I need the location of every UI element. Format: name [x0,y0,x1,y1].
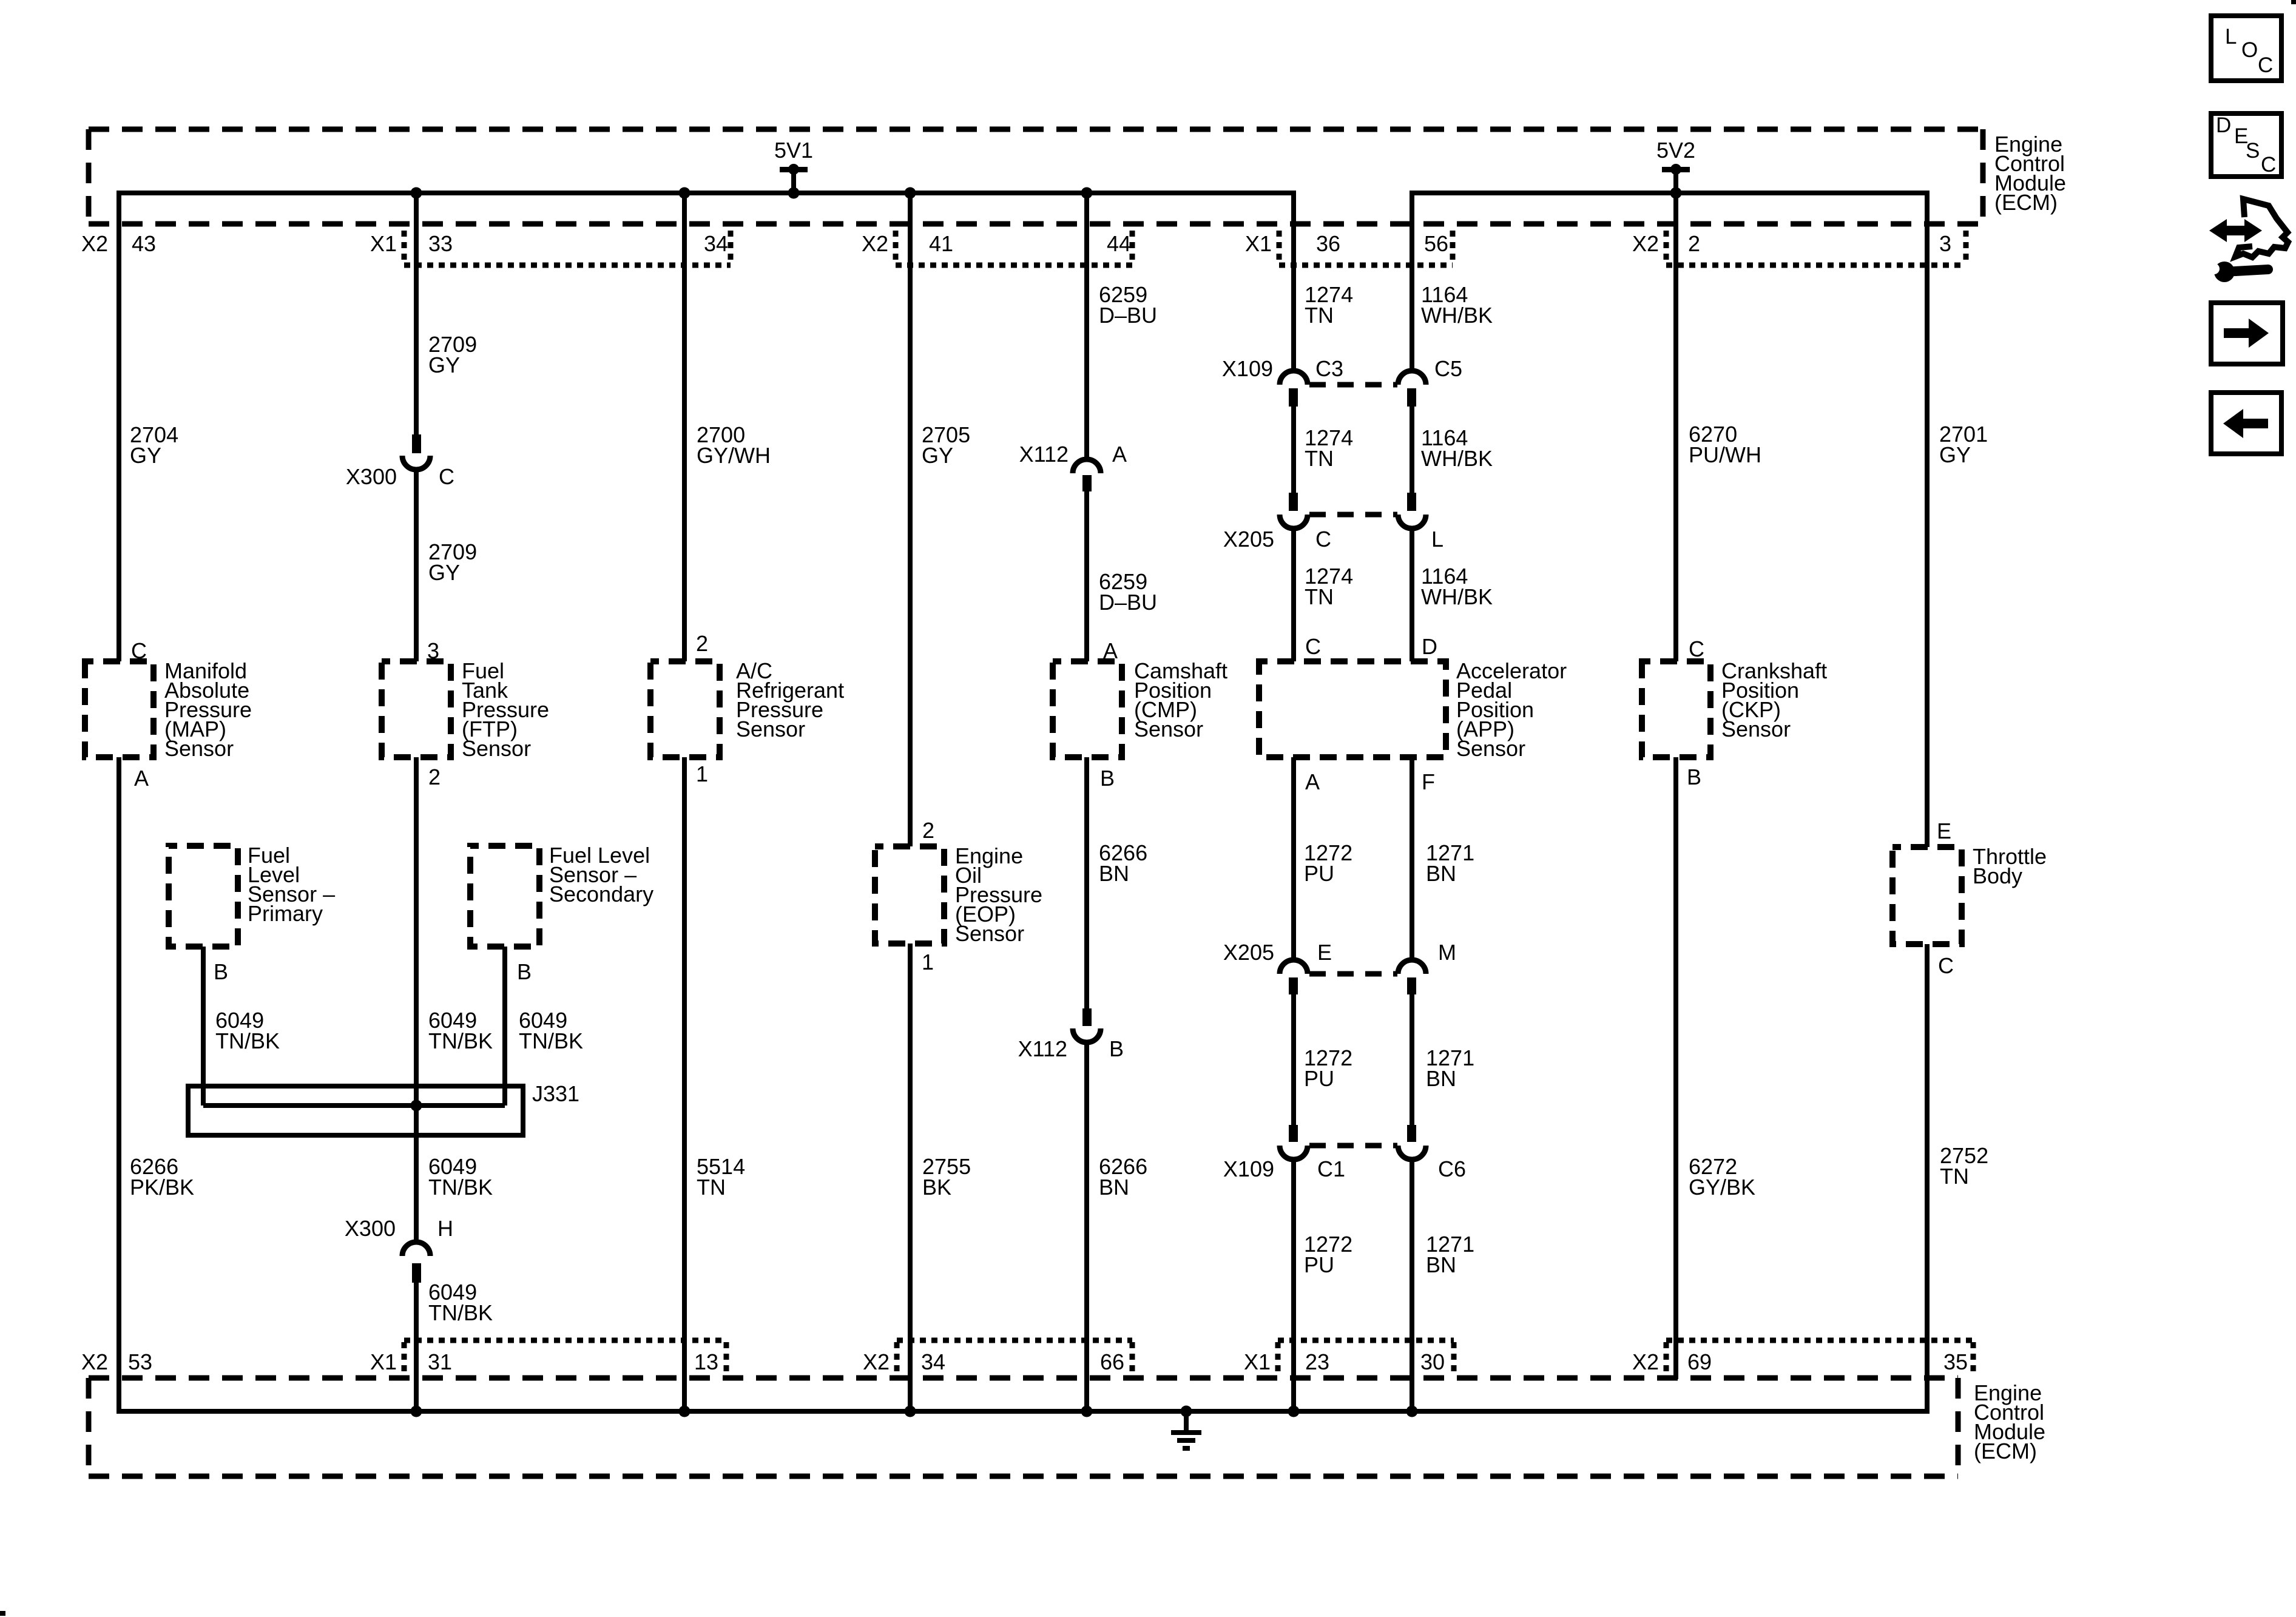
svg-text:30: 30 [1420,1349,1445,1374]
junction node pin 23 wire / ground bus [1288,1406,1300,1417]
svg-text:C3: C3 [1315,356,1343,381]
svg-text:43: 43 [132,231,156,256]
junction node pin 30 wire / ground bus [1406,1406,1418,1417]
svg-text:X205: X205 [1223,940,1274,965]
wire 6266 PK/BK label (MAP low ref) [130,1154,194,1200]
APP sensor box [1259,661,1446,757]
svg-text:PU/WH: PU/WH [1689,442,1761,467]
svg-text:2: 2 [922,818,934,843]
wire: X205 L to APP sensor pin D [1410,527,1414,661]
svg-text:PU: PU [1304,861,1334,886]
svg-text:WH/BK: WH/BK [1421,303,1493,328]
svg-text:L: L [2225,25,2237,49]
svg-text:GY/WH: GY/WH [697,443,771,468]
svg-text:X1: X1 [370,231,397,256]
wire 1271 BN label (upper) [1426,840,1474,886]
svg-text:X2: X2 [81,1349,108,1374]
svg-text:C: C [1305,634,1321,659]
svg-text:3: 3 [1939,231,1951,256]
inline connector X109 pin C3 [1222,356,1343,407]
svg-text:5V2: 5V2 [1656,138,1695,163]
pin 69 (ECM X2 bottom) [1632,1349,1712,1374]
junction node pin 44 wire / 5V1 bus [1081,187,1093,199]
svg-text:5V1: 5V1 [774,138,813,163]
wire 6049 TN/BK label (above pin 31) [428,1280,493,1325]
wire: Fuel Level Primary pin B to splice J331 [201,947,206,1106]
pin 31 (ECM X1) [370,1349,452,1374]
wire: X109 C1 to pin 23 [1291,1158,1296,1411]
inline connector X109 pin C5 [1398,356,1462,407]
svg-text:BN: BN [1426,861,1456,886]
ECM top connector X2 dotted pin box (pins 41,44) [896,231,1132,265]
wire 2709 GY label (lower) [428,539,477,585]
CMP sensor box [1053,661,1122,757]
wire: A/C pin 1 to pin 13 (5514 TN) [682,757,687,1411]
splice pack J331 [188,1081,579,1135]
wire 2752 TN label [1940,1143,1988,1189]
wire: pin 34 to A/C sensor pin 2 (2700 GY/WH) [682,193,687,661]
svg-text:2: 2 [696,631,708,656]
svg-text:TN: TN [1305,446,1334,471]
svg-text:BN: BN [1099,861,1129,886]
inline connector X109 pin C1 [1223,1125,1345,1181]
wire 6270 PU/WH label [1689,422,1761,467]
svg-text:66: 66 [1100,1349,1124,1374]
svg-text:B: B [517,959,532,984]
inline connector X205 pin M [1398,940,1456,994]
wire 6049 TN/BK label (below J331) [428,1154,493,1200]
svg-text:Sensor: Sensor [955,921,1024,946]
ECM bottom connector X2 dotted pin box (pins 34,66) [897,1340,1132,1375]
svg-text:Sensor: Sensor [1456,736,1525,761]
svg-text:A: A [1305,769,1320,794]
ECM top connector X1 dotted pin box (pins 33,34) [404,231,731,265]
CKP sensor label [1721,658,1827,741]
svg-text:41: 41 [929,231,953,256]
junction node pin 66 wire / ground bus [1081,1406,1093,1417]
svg-text:C: C [1689,636,1704,661]
svg-text:A: A [134,766,149,791]
svg-text:1: 1 [696,761,708,786]
wire: X109 C6 to pin 30 [1410,1158,1414,1411]
wire: bottom ground bus (pin 53 to pin 35) [119,757,1927,1411]
svg-text:13: 13 [694,1349,718,1374]
nav icon LOC [2211,16,2281,81]
junction node ground / ground bus [1181,1406,1192,1417]
wire 6049 TN/BK label (secondary sender branch) [519,1008,583,1053]
svg-text:F: F [1422,769,1435,794]
svg-text:GY/BK: GY/BK [1689,1175,1755,1200]
svg-text:X2: X2 [81,231,108,256]
inline connector X109 pin C6 [1398,1125,1466,1181]
svg-text:34: 34 [704,231,728,256]
wire 1164 WH/BK label (lower) [1421,564,1493,609]
svg-text:WH/BK: WH/BK [1421,584,1493,609]
ECM bottom connector pin row: X2 pin 53 [81,1349,152,1374]
ground symbol G103 [1171,1411,1201,1448]
wire: X300 H to pin 31 (6049 TN/BK) [414,1283,419,1411]
APP sensor label [1456,658,1567,761]
svg-text:2: 2 [428,765,441,789]
MAP sensor label [164,658,252,761]
svg-text:TN: TN [1940,1164,1969,1189]
Throttle Body box [1893,847,1962,944]
svg-text:X1: X1 [370,1349,397,1374]
wire 1271 BN label (lower) [1426,1232,1474,1277]
svg-text:(ECM): (ECM) [1974,1439,2037,1463]
wire 2705 GY label [922,422,970,468]
svg-text:Sensor: Sensor [1134,717,1203,741]
svg-text:C: C [1938,953,1954,978]
junction node pin 41 wire / 5V1 bus [905,187,916,199]
svg-text:D: D [1422,634,1437,659]
wire 5514 TN label [697,1154,745,1200]
ECM top connector X1 dotted pin box (pins 36,56) [1279,231,1453,265]
wire: X109 C5 to X205 L (1164 WH/BK) [1410,407,1414,493]
svg-text:D–BU: D–BU [1099,303,1157,328]
pin 23 (ECM X1 bottom) [1244,1349,1329,1374]
A/C refrigerant pressure sensor box [650,661,720,757]
5V2 voltage reference [1656,138,1695,199]
nav icon diagnostic tool (arrow, connector, wrench) [2209,199,2288,282]
ECM top dashed box (Engine Control Module) [89,129,1983,224]
ECM bottom label [1974,1380,2045,1463]
svg-text:GY: GY [428,560,460,585]
svg-text:X2: X2 [1632,1349,1659,1374]
ECM bottom connector X1 dotted pin box (pins 31,13) [404,1340,726,1375]
svg-text:X109: X109 [1223,1156,1274,1181]
svg-text:TN/BK: TN/BK [519,1028,583,1053]
svg-text:35: 35 [1943,1349,1968,1374]
svg-text:L: L [1431,527,1443,552]
wire 2704 GY label (MAP 5V ref) [130,422,178,468]
svg-text:X112: X112 [1019,442,1069,467]
wire: right 5V2 bus (pin 56 to pin 3) [1412,193,1927,847]
5V1 voltage reference [774,138,813,199]
wire: EOP pin 1 to pin 34 (2755 BK) [908,944,913,1411]
svg-text:C1: C1 [1317,1156,1345,1181]
connector link X109 C1-C6 [1309,1143,1397,1149]
inline connector X205 pin L [1398,493,1443,552]
Fuel Level Sensor Primary label [248,843,335,926]
FTP sensor box [382,661,451,757]
connector link X205 E-M [1309,971,1397,977]
nav icon back arrow [2211,393,2281,454]
svg-text:BK: BK [922,1175,951,1200]
wire 6266 BN label (lower) [1099,1154,1147,1200]
svg-text:H: H [437,1216,453,1241]
svg-text:33: 33 [428,231,453,256]
wire: APP pin F to X205 M (1271 BN) [1410,757,1414,960]
svg-text:36: 36 [1316,231,1340,256]
wire: X205 C to APP sensor pin C [1291,527,1296,661]
svg-text:53: 53 [128,1349,152,1374]
svg-text:D–BU: D–BU [1099,590,1157,615]
inline connector X112 pin B [1018,1008,1124,1061]
page corner mark [2291,0,2296,4]
svg-text:69: 69 [1687,1349,1712,1374]
connector link X205 C-L [1309,512,1397,518]
svg-text:BN: BN [1426,1066,1456,1091]
wire: CKP pin B to pin 69 (6272 GY/BK) [1673,757,1678,1379]
svg-text:Sensor: Sensor [736,717,805,741]
svg-text:C: C [1315,527,1331,552]
svg-text:TN: TN [1305,584,1334,609]
svg-text:E: E [1937,819,1951,843]
svg-text:TN/BK: TN/BK [215,1028,280,1053]
wire: X205 E to X109 C1 (1272 PU) [1291,994,1296,1125]
svg-text:TN/BK: TN/BK [428,1175,493,1200]
junction node pin 34 wire / 5V1 bus [679,187,690,199]
ECM bottom connector X2 dotted pin box (pins 69,35) [1666,1340,1973,1375]
inline connector X300 pin C [346,434,454,489]
svg-text:A: A [1112,442,1127,467]
svg-text:BN: BN [1099,1175,1129,1200]
junction node pin 34 wire / ground bus [905,1406,916,1417]
junction node pin 31 wire / ground bus [411,1406,422,1417]
svg-text:56: 56 [1424,231,1448,256]
svg-text:X109: X109 [1222,356,1273,381]
wire 2709 GY label (upper) [428,332,477,377]
svg-text:Body: Body [1973,863,2022,888]
svg-text:Secondary: Secondary [549,882,653,906]
wire: CMP pin B to X112 B (6266 BN) [1084,757,1089,1008]
ECM bottom connector X1 dotted pin box (pins 23,30) [1278,1340,1454,1375]
wire: left 5V1 bus (pin 43 to pin 36) [119,193,1294,661]
wire 6049 TN/BK label (FTP branch) [428,1008,493,1053]
wire: pin 44 to X112 A (6259 D-BU) [1084,193,1089,459]
Throttle Body label [1973,844,2047,888]
wire: X205 M to X109 C6 (1271 BN) [1410,994,1414,1125]
wire 6259 D-BU label (upper) [1099,282,1157,328]
svg-text:23: 23 [1305,1349,1329,1374]
svg-text:34: 34 [921,1349,945,1374]
wire 1164 WH/BK label (pin 56, upper) [1421,282,1493,328]
wire: X112 B to pin 66 [1084,1042,1089,1411]
svg-text:Sensor: Sensor [164,736,234,761]
svg-text:PU: PU [1304,1252,1334,1277]
svg-text:J331: J331 [532,1081,579,1106]
wire 2755 BK label [922,1154,971,1200]
wire: X300 C to FTP sensor pin 3 [414,468,419,661]
wire 6259 D-BU label (lower) [1099,569,1157,615]
svg-text:GY: GY [922,443,953,468]
svg-text:B: B [1109,1036,1124,1061]
MAP sensor box [85,661,154,757]
inline connector X112 pin A [1019,442,1127,491]
wire: pin 33 to X300 C (2709 GY) [414,193,419,434]
svg-text:S: S [2246,139,2260,163]
wire: Fuel Level Secondary pin B to splice J331 [502,947,507,1106]
svg-text:E: E [1317,940,1332,965]
wire: X112 A to CMP sensor pin A [1084,491,1089,661]
wire 1164 WH/BK label (middle) [1421,425,1493,471]
svg-text:C: C [439,464,454,489]
svg-text:X205: X205 [1223,527,1274,552]
svg-text:X112: X112 [1018,1036,1067,1061]
wire 1272 PU label (middle) [1304,1045,1352,1091]
ECM top connector X2 dotted pin box (pins 2,3) [1666,231,1966,265]
svg-text:B: B [214,959,228,984]
FTP sensor label [462,658,549,761]
EOP sensor box [875,846,944,944]
svg-text:TN: TN [697,1175,726,1200]
svg-text:C6: C6 [1438,1156,1466,1181]
wire 1271 BN label (middle) [1426,1045,1474,1091]
nav icon DESC [2211,113,2281,177]
svg-text:B: B [1687,765,1701,789]
svg-text:GY: GY [130,443,161,468]
svg-text:O: O [2241,38,2258,62]
svg-text:X300: X300 [346,464,397,489]
wire 1274 TN label (pin 36, upper) [1305,282,1353,328]
wire: APP pin A to X205 E (1272 PU) [1291,757,1296,960]
wire 6049 TN/BK label (primary sender branch) [215,1008,280,1053]
CMP sensor label [1134,658,1227,741]
stray period mark bottom left [0,1611,5,1616]
svg-text:X2: X2 [863,1349,890,1374]
ECM bottom dashed box (Engine Control Module) [89,1378,1958,1476]
wire 1272 PU label (lower) [1304,1232,1352,1277]
ECM top label [1994,132,2066,215]
A/C sensor label [736,658,844,741]
svg-text:M: M [1438,940,1456,965]
ECM top connector pin row: X2 pin 43 [81,231,156,256]
svg-text:D: D [2216,113,2231,137]
svg-text:GY: GY [428,353,460,377]
svg-text:Sensor: Sensor [462,736,531,761]
svg-text:X1: X1 [1244,1349,1271,1374]
wire 6272 GY/BK label [1689,1154,1755,1200]
svg-text:WH/BK: WH/BK [1421,446,1493,471]
svg-text:TN/BK: TN/BK [428,1028,493,1053]
svg-text:31: 31 [428,1349,452,1374]
CKP sensor box [1642,661,1710,757]
junction node pin 13 wire / ground bus [679,1406,690,1417]
pin 34 (ECM X2 bottom) [863,1349,945,1374]
wire 1274 TN label (lower) [1305,564,1353,609]
svg-text:C: C [2258,53,2273,77]
wire 1272 PU label (upper) [1304,840,1352,886]
EOP sensor label [955,843,1042,946]
inline connector X205 pin C [1223,493,1331,552]
svg-text:Sensor: Sensor [1721,717,1791,741]
junction node pin 33 wire / 5V1 bus [411,187,422,199]
svg-text:PU: PU [1304,1066,1334,1091]
svg-text:X1: X1 [1245,231,1272,256]
Fuel Level Sensor Secondary label [549,843,653,906]
wire: pin 41 to EOP sensor pin 2 (2705 GY) [908,193,913,846]
svg-text:1: 1 [922,950,934,974]
svg-text:GY: GY [1939,442,1971,467]
svg-text:(ECM): (ECM) [1994,190,2058,215]
wire 1274 TN label (middle) [1305,425,1353,471]
svg-text:X300: X300 [345,1216,396,1241]
svg-text:TN/BK: TN/BK [428,1300,493,1325]
inline connector X300 pin H [345,1216,453,1283]
wire 2700 GY/WH label [697,422,771,468]
wire: X109 C3 to X205 C (1274 TN) [1291,407,1296,493]
svg-text:X2: X2 [1632,231,1659,256]
pin 33 (ECM X1) [370,231,453,256]
svg-text:C5: C5 [1434,356,1462,381]
pin 41 (ECM X2) [862,231,953,256]
inline connector X205 pin E [1223,940,1332,994]
wire: FTP pin 2 through J331 to X300 H (6049 TN/BK) [414,757,419,1242]
Fuel Level Sensor Primary box [169,846,238,947]
pin 2 (ECM X2) [1632,231,1700,256]
connector link X109 C3-C5 [1309,382,1397,388]
svg-text:2: 2 [1688,231,1700,256]
svg-text:BN: BN [1426,1252,1456,1277]
pin 36 (ECM X1) [1245,231,1340,256]
svg-text:C: C [2261,153,2276,177]
Fuel Level Sensor Secondary box [470,846,539,947]
svg-text:X2: X2 [862,231,888,256]
svg-text:B: B [1100,766,1115,791]
svg-text:44: 44 [1107,231,1131,256]
svg-text:Primary: Primary [248,901,323,926]
nav icon forward arrow [2211,303,2283,364]
wire 2701 GY label (throttle body) [1939,422,1988,467]
wire: pin 2 to CKP sensor pin C (6270 PU/WH) [1673,193,1678,661]
svg-text:PK/BK: PK/BK [130,1175,194,1200]
svg-text:TN: TN [1305,303,1334,328]
wire 6266 BN label (upper) [1099,840,1147,886]
